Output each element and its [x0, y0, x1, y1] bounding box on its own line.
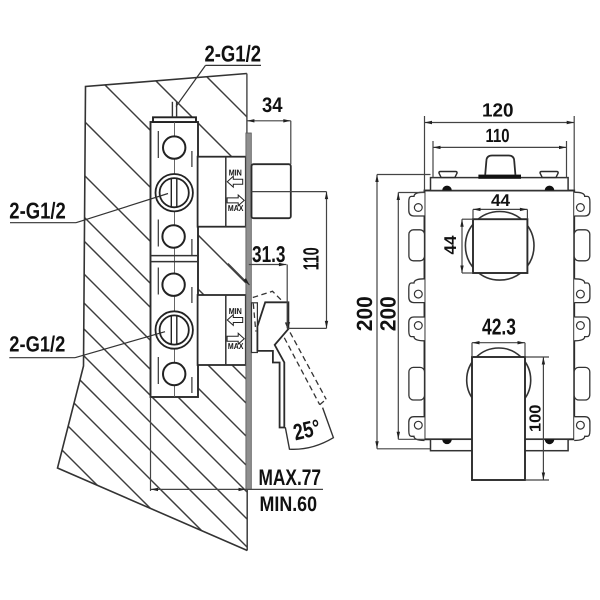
svg-text:2-G1/2: 2-G1/2 [205, 41, 262, 67]
valve body (front view) [425, 191, 575, 440]
dimension 44 horizontal (square cutout width) [473, 209, 527, 219]
lower cartridge housing [198, 295, 246, 365]
valve body (side view) [151, 122, 199, 397]
body centerline [174, 122, 176, 397]
dimension 34 (wall to trim face) [247, 121, 291, 164]
svg-text:MAX: MAX [228, 341, 244, 351]
dimension 42.3 (handle shaft width) [472, 343, 525, 357]
right side snap clips and lugs [574, 192, 590, 440]
svg-text:2-G1/2: 2-G1/2 [9, 197, 66, 223]
svg-text:31.3: 31.3 [252, 241, 286, 267]
svg-text:MAX.77: MAX.77 [259, 465, 322, 490]
small port circle 4 (lower valve) [163, 363, 185, 385]
svg-text:200: 200 [375, 296, 400, 331]
small port circle 3 (lower valve) [162, 274, 184, 296]
divider between units [151, 255, 199, 257]
dimension 200 inner (body height) [398, 193, 424, 440]
G1/2 inlet port upper (double circle with slot) [156, 174, 193, 211]
retaining clips on top flange [439, 172, 457, 178]
mounting flange strips top and bottom [431, 178, 569, 191]
top adjuster knob [485, 156, 515, 175]
top pipe stub [171, 102, 173, 118]
wall outline [58, 74, 248, 551]
25 degree swing arc with label [285, 408, 333, 450]
left side snap clips and lugs [409, 192, 425, 440]
svg-text:34: 34 [262, 94, 283, 117]
dimension 200 outer (overall height) [377, 175, 431, 449]
svg-text:200: 200 [352, 296, 377, 331]
dimension 120 (overall body width) [425, 116, 575, 191]
handle lever rotated 25 deg (dashed) [253, 291, 326, 404]
svg-text:42.3: 42.3 [482, 314, 516, 340]
svg-text:44: 44 [491, 191, 511, 210]
svg-text:120: 120 [482, 101, 514, 122]
svg-text:MIN: MIN [229, 168, 242, 178]
lower cartridge circle with handle shaft rectangle [467, 348, 531, 412]
svg-text:25°: 25° [291, 414, 323, 445]
svg-text:MIN: MIN [229, 306, 242, 316]
upper trim plate (side view) [252, 164, 291, 218]
svg-text:MIN.60: MIN.60 [260, 493, 318, 516]
G1/2 inlet port lower (double circle with slot) [156, 311, 193, 348]
leader labels 2-G1/2 [9, 65, 261, 357]
svg-text:44: 44 [441, 235, 460, 255]
dimension 110 (port spacing, side view) [252, 192, 327, 329]
handle lever normal position (solid) [257, 302, 288, 427]
mounting screw dots [442, 186, 452, 191]
small port circle 1 (upper valve) [163, 136, 185, 158]
dimension 31.3 (wall to handle face) [228, 263, 287, 328]
dimension MAX.77 MIN.60 (embedment depth) [151, 397, 324, 491]
dimension 100 (handle shaft length) [525, 357, 549, 480]
dimension 44 vertical (square cutout height) [462, 219, 473, 273]
small port circle 2 (upper valve) [162, 225, 184, 247]
dimension 110 (flange width) [433, 141, 567, 178]
svg-text:110: 110 [486, 126, 510, 147]
wall hatching [30, 0, 270, 600]
wall surface line (above finished wall) [246, 74, 248, 134]
svg-text:2-G1/2: 2-G1/2 [9, 332, 65, 357]
wall surface dark strip [246, 133, 251, 489]
thermostat cartridge circle with 44x44 square [465, 212, 534, 281]
upper cartridge housing [198, 157, 246, 227]
side tick segments [158, 131, 192, 393]
svg-text:110: 110 [299, 247, 324, 270]
svg-text:MAX: MAX [228, 203, 244, 213]
lower escutcheon sliver [252, 303, 258, 353]
svg-text:100: 100 [528, 405, 545, 432]
body top cap [153, 117, 196, 122]
